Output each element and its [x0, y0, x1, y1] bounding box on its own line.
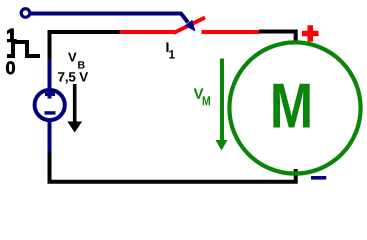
plus label (motor +) — [302, 25, 319, 42]
motor M1 circle — [229, 42, 360, 173]
label VB — [68, 53, 77, 62]
label VM — [194, 88, 204, 98]
plus mark inside VB — [45, 92, 55, 96]
VM arrow — [220, 59, 224, 142]
label 0 — [6, 61, 15, 74]
minus mark inside VB — [45, 111, 56, 114]
wire red left — [120, 30, 176, 34]
wire black right to motor — [259, 32, 296, 45]
wire bottom (black) — [50, 152, 296, 182]
wire red right — [202, 30, 260, 34]
wire navy below VB — [48, 119, 52, 153]
pulse source symbol (square wave icon) — [7, 42, 40, 56]
voltage source VB circle — [35, 90, 65, 120]
label I1 — [166, 42, 168, 52]
wire (VB top, black) — [50, 32, 121, 60]
label 1 — [8, 29, 16, 41]
label 7,5 V — [58, 72, 88, 83]
wire control (navy horizontal from input terminal) — [31, 14, 189, 23]
wire navy into VB source — [48, 59, 52, 99]
motor letter M — [273, 84, 309, 128]
current arrow at VB — [73, 84, 77, 123]
minus label (motor -) — [311, 176, 326, 180]
switch I1 lever — [174, 18, 206, 34]
input terminal — [21, 9, 30, 18]
switch control arrowhead — [185, 20, 196, 32]
